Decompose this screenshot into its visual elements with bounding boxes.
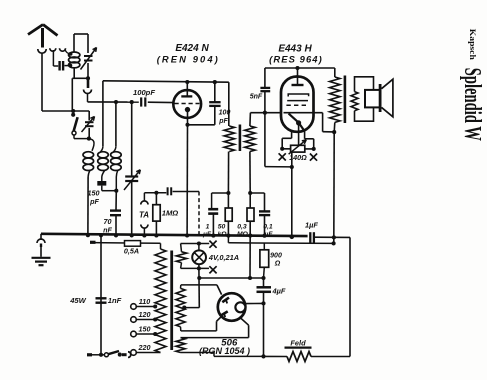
svg-text:pF: pF: [218, 118, 228, 125]
svg-text:5nF: 5nF: [250, 94, 263, 101]
svg-text:1MΩ: 1MΩ: [162, 209, 179, 218]
svg-text:Ω: Ω: [274, 261, 281, 268]
svg-text:100pF: 100pF: [133, 88, 155, 97]
svg-text:4µF: 4µF: [272, 287, 286, 296]
svg-text:0,3: 0,3: [237, 224, 247, 231]
svg-text:Kapsch: Kapsch: [468, 29, 477, 61]
svg-text:(REN 904): (REN 904): [157, 54, 220, 65]
svg-text:1nF: 1nF: [108, 296, 122, 305]
svg-text:(RGN 1054 ): (RGN 1054 ): [199, 346, 250, 356]
svg-text:1: 1: [206, 224, 210, 231]
svg-text:1µF: 1µF: [305, 221, 318, 230]
svg-text:Feld: Feld: [290, 338, 306, 347]
svg-text:110: 110: [139, 297, 150, 306]
svg-text:150: 150: [139, 325, 151, 334]
svg-text:Splendid W: Splendid W: [459, 68, 485, 141]
svg-text:0,1: 0,1: [263, 224, 273, 231]
svg-text:(RES 964): (RES 964): [269, 54, 323, 65]
svg-text:140Ω: 140Ω: [289, 153, 307, 162]
svg-text:120: 120: [139, 310, 151, 319]
svg-text:900: 900: [270, 253, 282, 260]
svg-text:4V,0,21A: 4V,0,21A: [208, 253, 239, 262]
svg-text:pF: pF: [89, 197, 99, 206]
svg-text:E424 N: E424 N: [175, 43, 209, 54]
svg-text:150: 150: [88, 188, 100, 197]
svg-text:TA: TA: [139, 211, 149, 220]
svg-text:45W: 45W: [69, 296, 86, 305]
svg-text:50: 50: [218, 224, 226, 231]
svg-text:220: 220: [138, 343, 151, 352]
svg-text:0,5A: 0,5A: [124, 247, 139, 256]
